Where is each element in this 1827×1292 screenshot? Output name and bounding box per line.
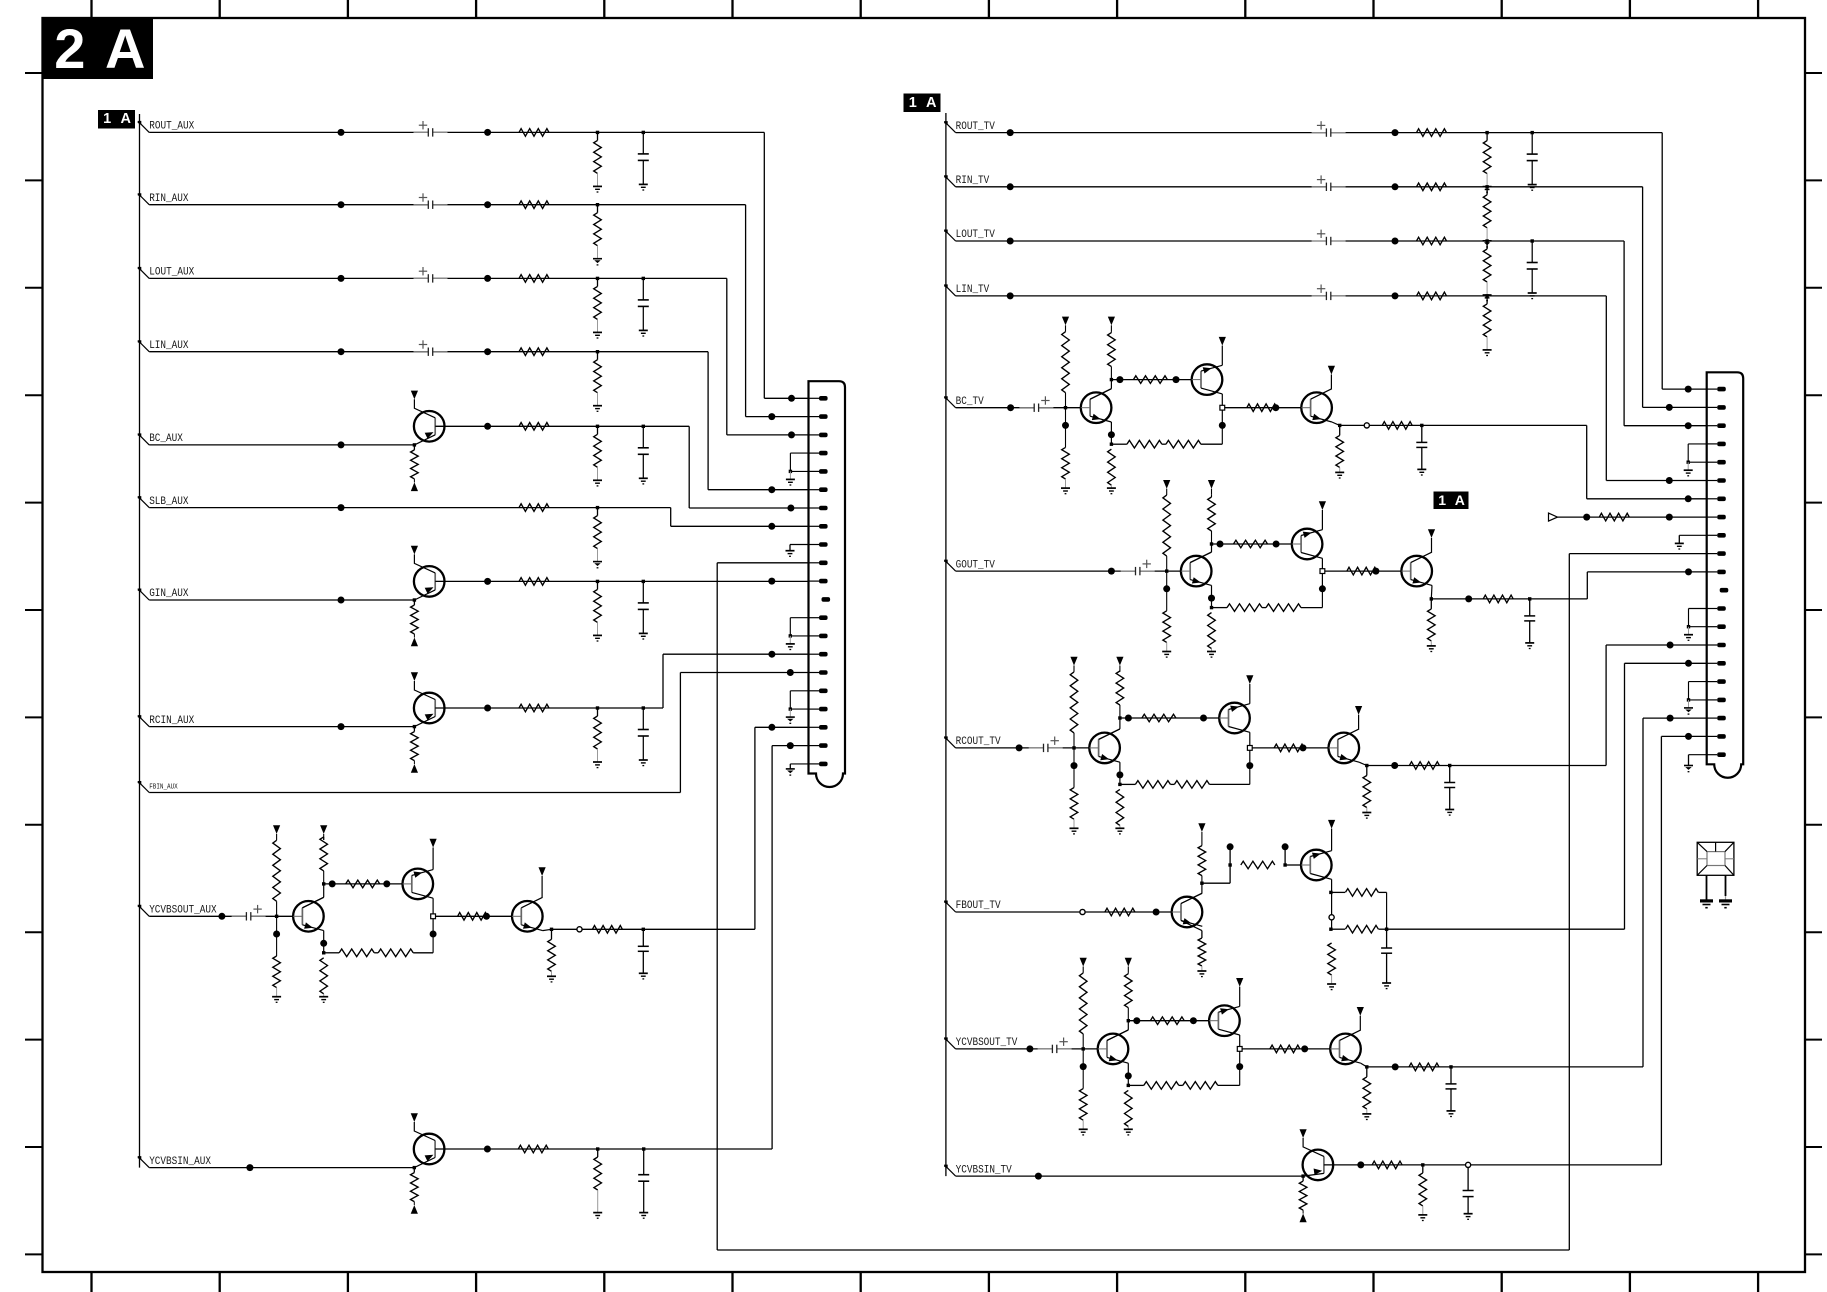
- series output resistor YCVBSOUT_AUX: [592, 926, 622, 934]
- junction on GOUT_TV: [1108, 568, 1115, 575]
- svg-text:YCVBSOUT_TV: YCVBSOUT_TV: [956, 1037, 1018, 1049]
- coupling capacitor on LOUT_TV: [1327, 236, 1331, 246]
- interstage wire Q1-Q2 YCVBSOUT_AUX: [324, 883, 403, 885]
- junction at pin 19: [768, 724, 775, 731]
- junction on YCVBSIN_AUX: [246, 1164, 253, 1171]
- junction on Q2 collector GOUT_TV: [1319, 585, 1326, 592]
- junction at Q2 base GOUT_TV: [1273, 541, 1280, 548]
- junction on RIN_AUX: [338, 201, 345, 208]
- series output resistor BC_TV: [1382, 422, 1412, 430]
- svg-text:YCVBSIN_AUX: YCVBSIN_AUX: [149, 1156, 211, 1168]
- junction at pin 16: [787, 669, 794, 676]
- junction on YCVBSIN_TV: [1035, 1173, 1042, 1180]
- junction at connector pin for LOUT_TV: [1685, 422, 1692, 429]
- Q2 collector wire down YCVBSOUT_AUX: [432, 898, 434, 935]
- junction on RCIN_AUX: [338, 723, 345, 730]
- junction at connector pin for RIN_AUX: [768, 413, 775, 420]
- series resistor on LIN_AUX: [519, 348, 549, 356]
- node YCVBSOUT_TV: [944, 1037, 948, 1041]
- reference label 1A (right mid): [1434, 492, 1469, 510]
- transistor Q3 of YCVBSOUT_TV: [1330, 1034, 1361, 1065]
- junction on LOUT_TV: [1007, 238, 1014, 245]
- series resistor RCIN_AUX output: [519, 704, 549, 712]
- ground bracket pins 17-18 left connector: [790, 690, 808, 692]
- junction at Q3 base BC_TV: [1272, 404, 1279, 411]
- Q2 collector wire down YCVBSOUT_TV: [1239, 1035, 1241, 1068]
- supply arrow above Q3 YCVBSOUT_TV: [1359, 1016, 1361, 1030]
- supply arrow above Q2 emitter GOUT_TV: [1321, 510, 1323, 530]
- series resistor Q2-Q3 GOUT_TV: [1325, 570, 1402, 572]
- Q2 collector chain FBOUT_TV: [1331, 879, 1333, 929]
- junction at Q2 base YCVBSOUT_TV: [1190, 1017, 1197, 1024]
- supply arrow above Q1 collector RCOUT_TV: [1116, 657, 1123, 666]
- junction on ROUT_AUX after capacitor: [484, 129, 491, 136]
- emitter ground resistor Q2 FBOUT_TV: [1328, 943, 1336, 975]
- output wire YCVBSIN_TV: [1324, 1164, 1662, 1166]
- output filter capacitor BC_TV: [1420, 424, 1423, 427]
- test point on output GOUT_TV: [1465, 595, 1472, 602]
- emitter resistor Q1 FBOUT_TV: [1181, 921, 1202, 931]
- shunt resistor to ground on RIN_AUX: [596, 203, 599, 206]
- collector network Q1 FBOUT_TV: [1181, 893, 1202, 903]
- svg-text:2: 2: [54, 17, 85, 80]
- test point on FBOUT_TV: [1080, 909, 1085, 914]
- supply arrow above Q3 BC_TV: [1330, 375, 1332, 389]
- node YCVBSIN_AUX: [138, 1156, 142, 1160]
- wire ROUT_AUX to connector: [763, 132, 765, 398]
- series resistor YCVBSIN_AUX output: [518, 1145, 548, 1153]
- wire BC_TV output to connector pin 7: [1422, 424, 1587, 426]
- node LOUT_TV: [944, 230, 948, 234]
- coupling capacitor on LIN_AUX: [428, 347, 432, 357]
- shunt resistor to ground on ROUT_TV: [1485, 131, 1488, 134]
- wire RIN_AUX to connector: [745, 205, 747, 417]
- ground bracket pins 4-5 left connector: [790, 452, 808, 454]
- coupling capacitor on ROUT_TV: [1327, 128, 1331, 138]
- series resistor Q1-Q2 RCOUT_TV: [1142, 714, 1176, 722]
- coupling capacitor on YCVBSOUT_AUX: [247, 911, 251, 921]
- series resistor on 1A wire: [1599, 513, 1629, 521]
- emitter resistor of Q1 GOUT_TV: [1211, 585, 1213, 607]
- node LOUT_AUX: [138, 267, 142, 271]
- junction at right pin 16: [1685, 660, 1692, 667]
- Q2 collector wire down BC_TV: [1221, 394, 1223, 427]
- interstage wire Q1-Q2 RCOUT_TV: [1120, 717, 1219, 719]
- node LIN_TV: [944, 284, 948, 288]
- collector load resistor of Q1 YCVBSOUT_TV: [1107, 1030, 1128, 1041]
- bias divider column on GOUT_TV: [1165, 569, 1168, 572]
- feedback resistor upper FBOUT_TV: [1332, 891, 1345, 893]
- shunt resistor to ground on RIN_TV: [1485, 185, 1488, 188]
- series resistor on RIN_AUX: [519, 201, 549, 209]
- output wire GOUT_TV: [1431, 598, 1529, 600]
- output wire GIN_AUX: [435, 580, 808, 582]
- test point on output YCVBSOUT_AUX: [577, 927, 582, 932]
- ground stub pin 9 left connector: [790, 544, 809, 546]
- supply arrow above bias divider on RCOUT_TV: [1070, 657, 1077, 666]
- node RCOUT_TV: [944, 736, 948, 740]
- ground bracket pins 17-18 right connector: [1689, 681, 1707, 683]
- connector J (left half): [809, 381, 846, 787]
- test point at Q2 collector RCOUT_TV: [1247, 746, 1252, 751]
- emitter resistor on BC_AUX: [413, 443, 416, 446]
- coupling capacitor on RIN_AUX: [428, 200, 432, 210]
- svg-text:GIN_AUX: GIN_AUX: [149, 588, 188, 600]
- supply arrow above bias divider on YCVBSOUT_TV: [1080, 958, 1087, 967]
- Q3 emitter junction BC_TV: [1332, 422, 1340, 425]
- series resistor Q2-Q3 YCVBSOUT_TV: [1242, 1048, 1330, 1050]
- Q3 emitter junction YCVBSOUT_TV: [1361, 1063, 1367, 1067]
- junction RCIN_AUX output: [484, 705, 491, 712]
- reference input arrow 1A to pin 8: [1549, 513, 1558, 521]
- transistor Q2 of GOUT_TV: [1292, 529, 1323, 560]
- junction at connector pin for LOUT_AUX: [788, 431, 795, 438]
- Q3 emitter junction GOUT_TV: [1430, 585, 1433, 599]
- svg-text:LOUT_AUX: LOUT_AUX: [149, 267, 194, 279]
- svg-text:YCVBSIN_TV: YCVBSIN_TV: [956, 1164, 1012, 1176]
- supply arrow above Q2 emitter RCOUT_TV: [1249, 684, 1251, 704]
- output filter capacitor YCVBSOUT_AUX: [642, 928, 645, 931]
- bottom rail wire: [717, 1249, 1569, 1251]
- svg-text:RCIN_AUX: RCIN_AUX: [149, 715, 194, 727]
- junction on LIN_AUX after capacitor: [484, 348, 491, 355]
- svg-text:SLB_AUX: SLB_AUX: [149, 496, 188, 508]
- test point at Q2 collector GOUT_TV: [1320, 569, 1325, 574]
- node ROUT_AUX: [138, 121, 142, 125]
- ground bracket pins 13-14 right connector: [1689, 608, 1707, 610]
- junction at connector pin for ROUT_TV: [1685, 386, 1692, 393]
- supply arrow above Q1 collector YCVBSOUT_TV: [1125, 958, 1132, 967]
- coupling capacitor on BC_TV: [1034, 403, 1038, 413]
- junction at connector pin for RIN_TV: [1666, 404, 1673, 411]
- junction at connector pin for ROUT_AUX: [788, 395, 795, 402]
- junction on ROUT_TV after capacitor: [1392, 129, 1399, 136]
- series resistor Q1-Q2 YCVBSOUT_AUX: [346, 880, 380, 888]
- connector J (right half): [1707, 372, 1744, 777]
- junction at Q3 base YCVBSOUT_TV: [1301, 1045, 1308, 1052]
- node FBOUT_TV: [944, 901, 948, 905]
- emitter resistor of Q1 YCVBSOUT_AUX: [323, 931, 325, 953]
- wire RIN_TV to connector: [1642, 187, 1644, 408]
- supply arrow above Q3 YCVBSOUT_AUX: [541, 876, 543, 897]
- svg-text:RCOUT_TV: RCOUT_TV: [956, 736, 1001, 748]
- svg-text:A: A: [105, 17, 145, 80]
- shunt capacitor to ground on LOUT_TV: [1531, 239, 1534, 242]
- junction on RIN_TV: [1007, 183, 1014, 190]
- series resistor on ROUT_TV: [1417, 129, 1447, 137]
- output wire BC_AUX: [435, 425, 689, 427]
- junction at pin 7: [787, 505, 794, 512]
- svg-text:GOUT_TV: GOUT_TV: [956, 559, 995, 571]
- junction on 1A wire: [1583, 514, 1590, 521]
- transistor on YCVBSIN_TV: [1303, 1150, 1334, 1181]
- emitter resistor of Q1 BC_TV: [1110, 422, 1112, 444]
- junction at right pin 15: [1667, 642, 1674, 649]
- svg-text:RIN_TV: RIN_TV: [956, 175, 990, 187]
- shunt capacitor to ground on ROUT_TV: [1531, 131, 1534, 134]
- emitter resistor of Q3 BC_TV: [1339, 425, 1341, 435]
- stub junction at Q2 base FBOUT_TV: [1283, 863, 1286, 866]
- wire ROUT_TV to connector: [1661, 133, 1663, 390]
- transistor Q2 FBOUT_TV: [1301, 850, 1332, 881]
- bias resistor FBOUT_TV: [1241, 861, 1275, 869]
- lower bias resistor to ground on YCVBSOUT_AUX: [273, 931, 280, 938]
- feedback resistors GOUT_TV: [1212, 607, 1228, 609]
- svg-text:LIN_AUX: LIN_AUX: [149, 340, 188, 352]
- transistor Q1 of BC_TV: [1081, 392, 1112, 423]
- shield/crystal box symbol: [1697, 842, 1734, 875]
- node GIN_AUX: [138, 589, 142, 593]
- shunt resistor to ground on LIN_TV: [1485, 294, 1488, 297]
- junction at connector pin for LIN_AUX: [768, 486, 775, 493]
- lower bias resistor to ground on GOUT_TV: [1163, 585, 1170, 592]
- stub junction above bias resistor FBOUT_TV: [1229, 847, 1231, 865]
- wire to Q2 base FBOUT_TV: [1285, 864, 1301, 866]
- wire YCVBSIN_TV to connector pin 20: [1660, 736, 1662, 1165]
- junction on RIN_AUX after capacitor: [484, 201, 491, 208]
- node RIN_TV: [944, 175, 948, 179]
- junction on Q2 collector YCVBSOUT_TV: [1236, 1063, 1243, 1070]
- reference label 1A (right top): [904, 94, 941, 113]
- svg-text:FBOUT_TV: FBOUT_TV: [956, 900, 1001, 912]
- wire LOUT_AUX to connector: [726, 278, 728, 435]
- ground bracket pins 13-14 left connector: [790, 617, 808, 619]
- wire LIN_AUX to connector: [707, 352, 709, 490]
- junction on BC_TV: [1007, 404, 1014, 411]
- ground stub pin 21 left connector: [790, 763, 808, 765]
- shunt resistor to ground on ROUT_AUX: [596, 131, 599, 134]
- interstage wire Q1-Q2 GOUT_TV: [1212, 543, 1292, 545]
- output wire RCOUT_TV: [1367, 765, 1450, 767]
- output wire BC_TV: [1340, 424, 1422, 426]
- feedback resistors YCVBSOUT_AUX: [324, 952, 340, 954]
- shunt capacitor to ground on ROUT_AUX: [642, 131, 645, 134]
- supply arrow above Q1 collector BC_TV: [1108, 317, 1115, 326]
- series resistor on LOUT_AUX: [519, 275, 549, 283]
- test point at Q2 collector YCVBSOUT_TV: [1237, 1047, 1242, 1052]
- series resistor on RIN_TV: [1417, 183, 1447, 191]
- wire YCVBSOUT_TV output to connector pin 19: [1451, 1066, 1643, 1068]
- lower bias resistor to ground on BC_TV: [1062, 422, 1069, 429]
- output wire YCVBSIN_AUX: [435, 1148, 772, 1150]
- Q2 collector wire down GOUT_TV: [1321, 558, 1323, 590]
- supply arrow above Q1 FBOUT_TV: [1198, 823, 1205, 832]
- node BC_TV: [944, 396, 948, 400]
- sheet label 2A: [42, 18, 153, 79]
- node ROUT_TV: [944, 121, 948, 125]
- wire RCIN_AUX to connector pin 15: [662, 654, 664, 708]
- shunt capacitor to ground RCIN_AUX: [642, 706, 645, 709]
- supply arrow above Q1 collector YCVBSOUT_AUX: [320, 825, 327, 834]
- series resistor FBOUT_TV: [1105, 908, 1135, 916]
- junction at Q2 base BC_TV: [1173, 376, 1180, 383]
- svg-text:BC_AUX: BC_AUX: [149, 433, 183, 445]
- wire FBIN_AUX to connector pin 16: [679, 673, 681, 793]
- ground stub pin 9 right connector: [1679, 534, 1706, 536]
- junction on BC_AUX: [338, 441, 345, 448]
- transistor Q1 of GOUT_TV: [1181, 556, 1212, 587]
- bias divider column on YCVBSOUT_AUX: [275, 915, 278, 918]
- transistor on YCVBSIN_AUX: [414, 1134, 445, 1165]
- emitter resistor YCVBSIN_AUX: [413, 1166, 416, 1169]
- supply arrow above YCVBSIN_AUX transistor: [411, 1113, 418, 1122]
- wire FBOUT_TV output to connector pin 16: [1387, 928, 1625, 930]
- series resistor on ROUT_AUX: [519, 129, 549, 137]
- svg-text:LIN_TV: LIN_TV: [956, 284, 990, 296]
- test point on output BC_TV: [1364, 423, 1369, 428]
- supply arrow above Q2 emitter BC_TV: [1221, 346, 1223, 366]
- junction at right pin 8: [1666, 514, 1673, 521]
- transistor Q2 of YCVBSOUT_AUX: [403, 869, 434, 900]
- bus wire right: [945, 113, 947, 1176]
- transistor Q1 FBOUT_TV: [1172, 897, 1203, 928]
- series resistor Q2-Q3 BC_TV: [1225, 407, 1302, 409]
- emitter resistor of Q3 RCOUT_TV: [1366, 766, 1368, 776]
- junction at right pin 11: [1685, 568, 1692, 575]
- svg-text:1: 1: [909, 95, 917, 111]
- junction at pin 8: [768, 523, 775, 530]
- junction on Q2 collector YCVBSOUT_AUX: [430, 931, 437, 938]
- junction on LOUT_TV after capacitor: [1392, 238, 1399, 245]
- node YCVBSIN_TV: [944, 1165, 948, 1169]
- transistor Q1 of YCVBSOUT_TV: [1098, 1034, 1129, 1065]
- shunt capacitor to ground GIN_AUX: [642, 580, 645, 583]
- junction on LOUT_AUX: [338, 275, 345, 282]
- junction at Q3 base YCVBSOUT_AUX: [483, 913, 490, 920]
- node BC_AUX: [138, 433, 142, 437]
- test point on output RCOUT_TV: [1391, 762, 1398, 769]
- coupling capacitor on ROUT_AUX: [428, 127, 432, 137]
- wire LOUT_TV to connector: [1623, 241, 1625, 426]
- shunt resistor to ground RCIN_AUX: [596, 706, 599, 709]
- supply arrow above bias divider on YCVBSOUT_AUX: [273, 825, 280, 834]
- svg-text:ROUT_AUX: ROUT_AUX: [149, 121, 194, 133]
- transistor Q on BC_AUX: [414, 411, 445, 442]
- junction YCVBSIN_AUX output: [484, 1146, 491, 1153]
- junction on YCVBSOUT_AUX: [218, 913, 225, 920]
- junction at pin 11: [768, 578, 775, 585]
- lower bias resistor to ground on RCOUT_TV: [1071, 762, 1078, 769]
- supply arrow above YCVBSIN_TV transistor: [1300, 1129, 1307, 1138]
- feedback resistors YCVBSOUT_TV: [1128, 1084, 1144, 1086]
- junction on GIN_AUX: [338, 597, 345, 604]
- transistor Q1 of RCOUT_TV: [1089, 733, 1120, 764]
- wire YCVBSIN_AUX to connector pin 20: [771, 746, 773, 1149]
- junction at Q3 base RCOUT_TV: [1300, 744, 1307, 751]
- supply arrow above bias divider on GOUT_TV: [1163, 480, 1170, 489]
- junction on ROUT_TV: [1007, 129, 1014, 136]
- interstage wire Q1-Q2 BC_TV: [1111, 379, 1191, 381]
- series resistor Q2-Q3 YCVBSOUT_AUX: [436, 915, 513, 917]
- emitter resistor of Q1 RCOUT_TV: [1119, 762, 1121, 784]
- transistor Q3 of RCOUT_TV: [1329, 733, 1360, 764]
- supply arrow above Q2 emitter YCVBSOUT_AUX: [432, 848, 434, 870]
- output filter capacitor GOUT_TV: [1528, 597, 1531, 600]
- series resistor BC_AUX output: [519, 423, 549, 431]
- coupling capacitor on YCVBSOUT_TV: [1053, 1044, 1057, 1054]
- shunt resistor to ground on LIN_AUX: [596, 350, 599, 353]
- transistor Q3 of GOUT_TV: [1401, 556, 1432, 587]
- node GOUT_TV: [944, 560, 948, 564]
- collector load resistor of Q1 GOUT_TV: [1190, 552, 1211, 563]
- series resistor on LOUT_TV: [1417, 237, 1447, 245]
- supply arrow above bias divider on BC_TV: [1062, 317, 1069, 326]
- emitter resistor of Q3 GOUT_TV: [1430, 599, 1432, 609]
- Q3 emitter junction YCVBSOUT_AUX: [543, 929, 552, 930]
- Q2 collector wire down RCOUT_TV: [1249, 732, 1251, 767]
- shunt resistor to ground GIN_AUX: [596, 580, 599, 583]
- node LIN_AUX: [138, 340, 142, 344]
- output wire YCVBSOUT_AUX: [552, 928, 644, 930]
- ground stub pin 21 right connector: [1689, 754, 1707, 756]
- junction at Q1 base FBOUT_TV: [1153, 909, 1160, 916]
- svg-text:ROUT_TV: ROUT_TV: [956, 121, 995, 133]
- svg-text:A: A: [121, 111, 132, 127]
- emitter resistor of Q3 YCVBSOUT_TV: [1366, 1067, 1368, 1077]
- node YCVBSOUT_AUX: [138, 905, 142, 909]
- feedback resistor lower FBOUT_TV: [1332, 928, 1345, 930]
- shunt resistor to ground YCVBSIN_TV: [1421, 1163, 1424, 1166]
- output filter capacitor RCOUT_TV: [1448, 764, 1451, 767]
- emitter resistor of Q3 YCVBSOUT_AUX: [551, 929, 553, 939]
- wire GOUT_TV output to connector pin 11: [1530, 598, 1588, 600]
- junction BC_AUX output: [484, 423, 491, 430]
- junction on Q2 collector BC_TV: [1219, 422, 1226, 429]
- transistor Q2 of YCVBSOUT_TV: [1209, 1005, 1240, 1036]
- series resistor SLB_AUX: [519, 504, 549, 512]
- output wire RCIN_AUX: [435, 707, 663, 709]
- node RCIN_AUX: [138, 715, 142, 719]
- supply arrow above Q1 collector GOUT_TV: [1208, 480, 1215, 489]
- svg-text:1: 1: [103, 111, 111, 127]
- node FBIN_AUX: [138, 781, 142, 785]
- node SLB_AUX: [138, 496, 142, 500]
- emitter resistor on RCIN_AUX: [413, 725, 416, 728]
- wire pin 10 left connector to bottom rail: [717, 562, 808, 564]
- shield box ground legs: [1706, 875, 1708, 901]
- coupling capacitor on LOUT_AUX: [428, 273, 432, 283]
- wire SLB_AUX to connector pin 8: [670, 508, 672, 527]
- series output resistor GOUT_TV: [1483, 595, 1513, 603]
- feedback resistors BC_TV: [1111, 443, 1127, 445]
- wire BC_AUX to connector pin 7: [688, 426, 690, 508]
- junction on RCOUT_TV: [1016, 744, 1023, 751]
- series resistor GIN_AUX output: [519, 578, 549, 586]
- bias divider column on YCVBSOUT_TV: [1082, 1047, 1085, 1050]
- collector load resistor of Q1 YCVBSOUT_AUX: [302, 897, 323, 908]
- wire LIN_TV to connector: [1605, 296, 1607, 481]
- junction on LIN_TV: [1007, 292, 1014, 299]
- series resistor on LIN_TV: [1417, 292, 1447, 300]
- junction at connector pin for LIN_TV: [1666, 477, 1673, 484]
- Q3 emitter junction RCOUT_TV: [1359, 762, 1367, 765]
- junction at pin 20: [787, 742, 794, 749]
- junction on SLB_AUX: [338, 504, 345, 511]
- reference label 1A (left): [98, 110, 135, 129]
- emitter resistor on GIN_AUX: [413, 598, 416, 601]
- output filter capacitor YCVBSOUT_TV: [1449, 1065, 1452, 1068]
- junction on LIN_AUX: [338, 348, 345, 355]
- junction at Q2 base YCVBSOUT_AUX: [383, 880, 390, 887]
- svg-text:FBIN_AUX: FBIN_AUX: [149, 784, 178, 792]
- svg-text:LOUT_TV: LOUT_TV: [956, 229, 995, 241]
- supply arrow above transistor on GIN_AUX: [411, 546, 418, 555]
- shunt resistor to ground BC_AUX: [596, 425, 599, 428]
- transistor Q2 of BC_TV: [1192, 364, 1223, 395]
- supply arrow above Q3 RCOUT_TV: [1358, 715, 1360, 729]
- shunt capacitor to ground YCVBSIN_AUX: [642, 1147, 645, 1150]
- interstage wire Q1-Q2 YCVBSOUT_TV: [1128, 1020, 1209, 1022]
